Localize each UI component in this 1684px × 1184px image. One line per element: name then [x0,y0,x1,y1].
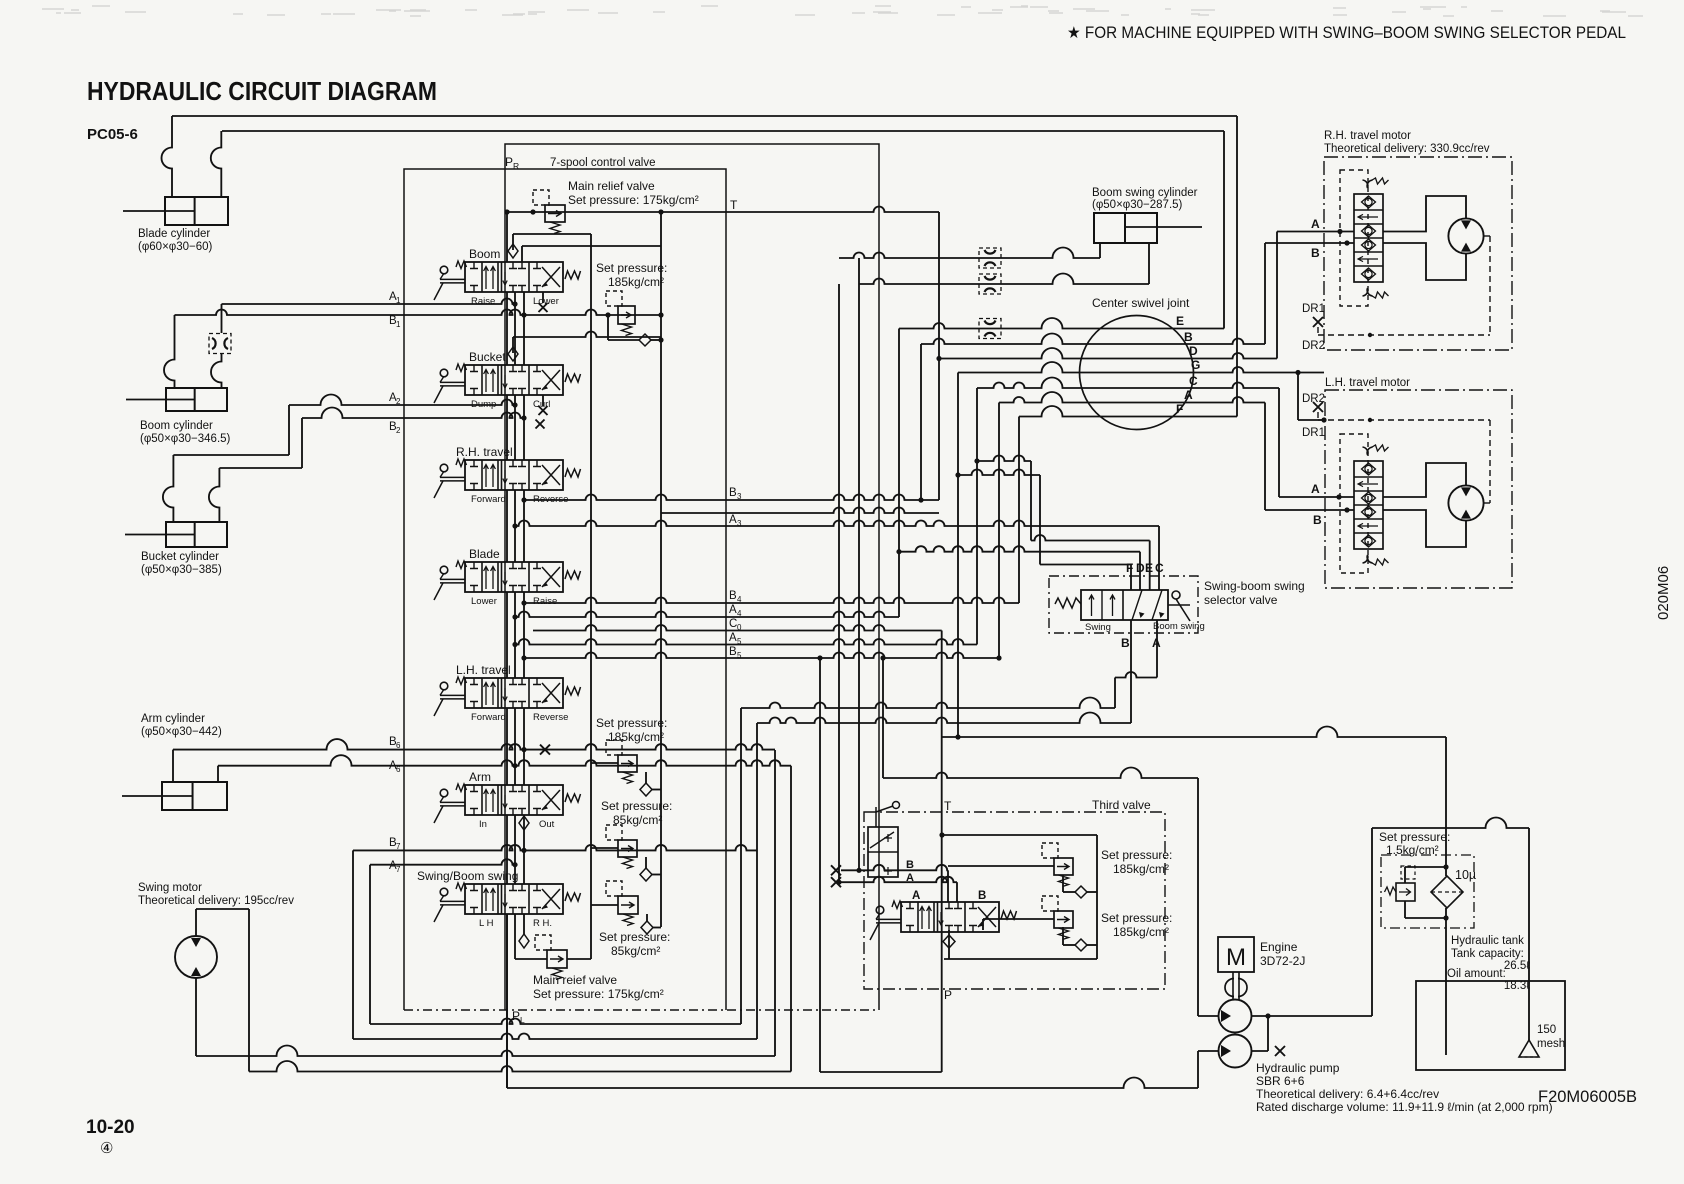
svg-text:★ FOR MACHINE EQUIPPED WITH S: ★ FOR MACHINE EQUIPPED WITH SWING–BOOM S… [1067,24,1626,42]
wire B2 bucket right port [209,468,220,522]
svg-text:A: A [912,890,920,902]
svg-text:D: D [1189,344,1198,358]
svg-text:Theoretical delivery: 330.9cc/: Theoretical delivery: 330.9cc/rev [1324,143,1490,155]
LH motor valve stack [1354,461,1383,549]
svg-text:(φ50×φ30−287.5): (φ50×φ30−287.5) [1092,199,1183,211]
wire B3 bus [524,495,939,500]
wire pump1 ports [1198,1015,1219,1017]
svg-text:F: F [1176,402,1183,416]
node A6 tap [512,763,517,768]
svg-text:7-spool control valve: 7-spool control valve [550,157,655,169]
wire A7 bus [370,859,515,865]
svg-text:185kg/cm²: 185kg/cm² [608,275,664,289]
wire PL return bus [370,1019,741,1025]
third valve spool [901,902,999,932]
wire nest N1 (PL to selector A) [740,708,742,1024]
svg-text:Rated discharge volume: 11.9+1: Rated discharge volume: 11.9+11.9 ℓ/min … [1256,1100,1553,1114]
svg-text:10-20: 10-20 [86,1117,135,1138]
svg-text:Reverse: Reverse [533,712,568,723]
svg-text:C: C [1189,374,1198,388]
wire right internal gallery v591 [590,234,592,959]
svg-text:185kg/cm²: 185kg/cm² [1113,862,1169,876]
svg-text:Arm: Arm [469,770,491,784]
svg-text:Swing: Swing [1085,622,1111,633]
svg-text:L: L [520,1015,525,1025]
wire A5 bus [515,639,977,645]
wire RH motor loop top [1383,196,1466,232]
svg-text:A: A [1184,388,1193,402]
check valve above bucket valve [512,337,514,353]
wire swivel line G [958,362,1324,372]
wire B7 bus [353,845,757,850]
svg-text:Main relief valve: Main relief valve [568,179,655,193]
svg-text:Main reief valve: Main reief valve [533,973,617,987]
svg-text:T: T [730,198,738,212]
wire swivel line C [977,378,1279,389]
svg-text:A: A [729,604,737,616]
svg-text:Bucket cylinder: Bucket cylinder [141,551,219,563]
valve Arm [465,785,563,815]
svg-text:3D72-2J: 3D72-2J [1260,954,1305,968]
wire B to RH motor B [1264,243,1266,344]
valve Boom [465,262,563,292]
return filter 10micron [1431,876,1463,908]
valve R.H. travel [465,460,563,490]
wire mid line y513 [661,508,939,514]
svg-text:Arm cylinder: Arm cylinder [141,713,205,725]
LH motor inner dashed box [1340,434,1368,573]
wire top bus 2 [222,130,1224,132]
svg-text:Bucket: Bucket [469,350,506,364]
swing motor [175,936,217,978]
valve Bucket [465,365,563,395]
wire pump suction bus y1088 [506,914,508,1088]
svg-text:Engine: Engine [1260,940,1298,954]
svg-text:10µ: 10µ [1455,868,1476,882]
svg-text:A: A [729,632,737,644]
svg-text:R: R [513,161,519,171]
svg-text:(φ50×φ30−346.5): (φ50×φ30−346.5) [140,433,231,445]
svg-text:Out: Out [539,819,555,830]
svg-text:R.H. travel motor: R.H. travel motor [1324,130,1411,142]
valve L.H. travel [465,678,563,708]
bucket cylinder [166,522,227,547]
svg-text:Third valve: Third valve [1092,798,1151,812]
svg-text:Theoretical delivery: 195cc/re: Theoretical delivery: 195cc/rev [138,895,294,907]
wire swivel line E [899,318,1224,329]
engine box [1218,937,1254,972]
svg-text:3: 3 [737,519,742,528]
svg-text:P: P [944,988,952,1002]
boom swing cylinder [1094,213,1157,243]
wire right internal gallery v661 [660,212,662,927]
plugged port boom valve [542,292,544,303]
wire blade cylinder left port to top bus [162,116,173,197]
wire C to LH motor A [1278,388,1280,497]
check valve above boom valve [512,234,514,250]
wire T right drop / D-column [938,212,940,500]
pilot change valve [868,827,898,877]
svg-text:Hydraulic pump: Hydraulic pump [1256,1061,1340,1075]
wire nest N3 [774,750,776,1056]
wire filter drop into tank [1445,737,1447,876]
svg-text:Raise: Raise [533,596,557,607]
svg-text:DR1: DR1 [1302,427,1325,439]
valve Blade [465,562,563,592]
wire P loop bottom [820,1071,942,1073]
svg-text:Set pressure:: Set pressure: [596,716,667,730]
svg-text:A: A [729,514,737,526]
wire RH motor loop bottom [1383,243,1466,280]
check valve below arm valve [519,816,529,830]
wire swivel line A [999,392,1265,402]
svg-text:Set pressure:: Set pressure: [596,261,667,275]
svg-text:7: 7 [396,865,401,874]
wire D to RH motor A [1276,232,1278,359]
svg-text:A: A [906,872,914,884]
wire B1 boom cylinder left port [164,315,175,388]
wire A1 boom cylinder right port w/ coupler [221,304,223,333]
svg-text:2: 2 [396,397,401,406]
wire nest N2 (to selector B) [756,723,758,1039]
wire B7 drop [352,850,354,1039]
wire bundle v958 (G drain) [957,373,959,738]
wire swing motor top port [195,909,197,936]
svg-text:M: M [1226,944,1246,971]
RH travel motor [1448,218,1483,253]
svg-text:7: 7 [396,842,401,851]
wire T trunk [941,631,943,1073]
svg-text:Boom swing: Boom swing [1153,621,1205,632]
svg-text:Hydraulic tank: Hydraulic tank [1451,935,1524,947]
svg-text:B: B [729,646,737,658]
wire third valve B line [831,865,841,875]
svg-text:A: A [1152,636,1161,650]
svg-text:G: G [1191,358,1200,372]
svg-text:mesh: mesh [1537,1038,1565,1050]
svg-text:R.H. travel: R.H. travel [456,445,513,459]
main relief valve (bottom) [547,950,567,968]
svg-text:selector valve: selector valve [1204,593,1278,607]
wire pump delivery line [883,768,1198,779]
wire swing motor bus y1056 [196,1046,775,1057]
plugged port bucket valve [542,395,544,406]
arm cylinder [162,782,227,810]
wire third valve inner box [942,834,1097,836]
filter bypass relief [1396,883,1415,901]
svg-text:Blade: Blade [469,547,500,561]
svg-text:Oil amount:: Oil amount: [1447,968,1506,980]
svg-text:④: ④ [100,1140,113,1157]
svg-text:E: E [1176,314,1184,328]
svg-text:18.3ℓ: 18.3ℓ [1504,980,1530,992]
svg-text:L.H. travel: L.H. travel [456,663,511,677]
svg-text:185kg/cm²: 185kg/cm² [608,730,664,744]
wire bundle v859 [858,258,860,870]
svg-text:Boom swing cylinder: Boom swing cylinder [1092,187,1198,199]
svg-text:L.H. travel motor: L.H. travel motor [1325,377,1410,389]
7-spool control valve outer box [404,169,726,1010]
main relief valve (top) [545,205,565,222]
svg-text:26.5ℓ: 26.5ℓ [1504,960,1530,972]
svg-text:B: B [1311,246,1320,260]
wire swing motor bus y1071 [249,1061,791,1072]
svg-text:DR1: DR1 [1302,303,1325,315]
wire swing motor bottom port [195,978,197,1056]
blade cylinder [165,197,228,225]
hydraulic tank [1416,981,1565,1070]
wire A6 arm right port [217,766,219,782]
svg-text:6: 6 [396,765,401,774]
svg-text:B: B [1313,513,1322,527]
check valve below swing valve [519,934,529,948]
svg-text:In: In [479,819,487,830]
wire swivel line F [1019,406,1237,417]
wire swivel line D [939,348,1277,359]
wire selector B drop [1130,620,1132,723]
svg-text:6: 6 [396,741,401,750]
wire blade cylinder right port to bus 2 [211,131,222,197]
wire E top drop (bus2) [1223,131,1225,329]
svg-text:Set pressure: 175kg/cm²: Set pressure: 175kg/cm² [533,987,664,1001]
wire C0 bus [533,625,942,631]
svg-text:Forward: Forward [471,712,506,723]
wire T return to tank [942,727,1446,738]
svg-text:Set pressure:: Set pressure: [1379,830,1450,844]
check valve below third spool [948,930,950,959]
svg-text:020M06: 020M06 [1655,566,1672,620]
svg-text:Lower: Lower [471,596,497,607]
selector spring left [1055,598,1081,608]
svg-text:C: C [1155,561,1164,575]
svg-text:DR2: DR2 [1302,340,1325,352]
pilot valve lever [875,807,877,827]
wire selector F link [958,470,1040,475]
svg-text:1: 1 [396,296,401,305]
svg-text:R H.: R H. [533,918,552,929]
svg-text:Tank capacity:: Tank capacity: [1451,948,1524,960]
svg-text:PC05-6: PC05-6 [87,126,138,143]
svg-text:B: B [1184,330,1193,344]
svg-text:Blade cylinder: Blade cylinder [138,228,210,240]
svg-text:B: B [906,859,914,871]
svg-text:Swing motor: Swing motor [138,882,202,894]
svg-text:Forward: Forward [471,494,506,505]
wire B6 arm left port [172,750,174,782]
svg-text:Set pressure:: Set pressure: [1101,911,1172,925]
wire RH motor B line [1265,242,1354,244]
svg-text:185kg/cm²: 185kg/cm² [1113,925,1169,939]
svg-text:Theoretical delivery: 6.4+6.4c: Theoretical delivery: 6.4+6.4cc/rev [1256,1087,1439,1101]
swing-boom swing selector valve box [1049,576,1198,633]
svg-text:4: 4 [737,609,742,618]
svg-text:B: B [1121,636,1130,650]
wire RH motor A line [1277,231,1354,233]
svg-text:(φ60×φ30−60): (φ60×φ30−60) [138,241,213,253]
scan artifact dashes top edge [42,6,1643,16]
svg-text:Set pressure:: Set pressure: [1101,848,1172,862]
svg-text:Raise: Raise [471,296,495,307]
wire selector E link [977,456,1031,462]
center swivel joint circle [1080,316,1194,430]
svg-text:2: 2 [396,426,401,435]
wire filter bypass loop [1405,866,1446,868]
svg-text:Set pressure: 175kg/cm²: Set pressure: 175kg/cm² [568,193,699,207]
wire B5 bus [524,653,999,659]
svg-text:F: F [1126,561,1133,575]
svg-text:B: B [729,590,737,602]
wire A4 bus [515,612,899,618]
7-spool control valve inner box [505,144,879,1010]
wire pump2 ports [1198,1050,1219,1052]
hydraulic pump 1 [1219,1000,1252,1033]
wire LH motor loop bottom [1383,510,1466,547]
engine coupling [1232,972,1234,1000]
hydraulic pump 2 [1219,1035,1252,1068]
svg-text:5: 5 [737,651,742,660]
wire third valve A line [831,877,841,887]
wire B4 bus [524,598,1019,604]
svg-text:F20M06005B: F20M06005B [1538,1088,1637,1106]
svg-text:B: B [729,487,737,499]
boom cylinder [166,388,227,411]
svg-text:Set pressure:: Set pressure: [601,799,672,813]
RH motor inner dashed box [1340,170,1368,306]
wire swivel line B [921,334,1265,345]
wire selector D link [899,546,1140,552]
svg-text:Set pressure:: Set pressure: [599,930,670,944]
wire selector A-B link [1115,672,1157,678]
wire boom swing cyl right port [1148,243,1150,284]
LH travel motor [1448,485,1483,520]
svg-text:Center swivel joint: Center swivel joint [1092,296,1190,310]
wire A3 bus [515,521,1159,527]
wire pump suction from tank [1371,828,1373,1016]
tank strainer 150 mesh [1528,981,1530,1040]
selector valve body [1081,590,1168,620]
svg-text:A: A [1311,217,1320,231]
svg-text:150: 150 [1537,1024,1556,1036]
svg-text:P: P [505,155,513,169]
svg-text:Boom cylinder: Boom cylinder [140,420,213,432]
svg-text:1: 1 [396,320,401,329]
svg-text:Swing/Boom swing: Swing/Boom swing [417,869,518,883]
wire A7 drop [369,865,371,1024]
svg-text:Dump: Dump [471,399,496,410]
svg-text:(φ50×φ30−442): (φ50×φ30−442) [141,726,222,738]
svg-text:L H: L H [479,918,494,929]
wire T line [505,207,939,213]
svg-text:A: A [1311,482,1320,496]
svg-text:4: 4 [737,595,742,604]
svg-text:85kg/cm²: 85kg/cm² [611,944,660,958]
valve Swing/Boom swing [465,884,563,914]
wire LH motor loop top [1383,463,1466,497]
svg-text:Swing-boom swing: Swing-boom swing [1204,579,1305,593]
wire A to LH motor B [1264,403,1266,511]
svg-text:HYDRAULIC CIRCUIT DIAGRAM: HYDRAULIC CIRCUIT DIAGRAM [87,76,437,106]
wire boom swing cyl left port [1099,243,1101,258]
wire F top drop (bus1) [1236,116,1238,417]
selector lever right [1172,591,1180,599]
wire top bus 1 [172,115,1237,117]
svg-text:SBR 6+6: SBR 6+6 [1256,1074,1305,1088]
svg-text:5: 5 [737,637,742,646]
svg-text:(φ50×φ30−385): (φ50×φ30−385) [141,564,222,576]
wire LH motor A line [1279,496,1354,498]
wire G drain branch [1297,373,1299,421]
svg-text:0: 0 [737,623,742,632]
svg-text:3: 3 [737,492,742,501]
svg-text:P: P [512,1009,520,1023]
svg-text:T: T [944,799,952,813]
wire bus y1039 [353,1034,757,1039]
wire P trunk v883 [882,658,884,778]
svg-text:Boom: Boom [469,247,500,261]
svg-text:B: B [978,890,986,902]
wire center galleries [506,292,508,365]
RH motor valve stack [1354,194,1383,282]
wire bundle v999 (A drop) [998,403,1000,659]
wire nest N4 [790,766,792,1072]
wire bundle v839 [838,284,840,882]
wire A2 bucket left port [163,455,173,522]
wire LH motor B line [1265,509,1354,511]
third valve enclosure [864,812,1165,989]
